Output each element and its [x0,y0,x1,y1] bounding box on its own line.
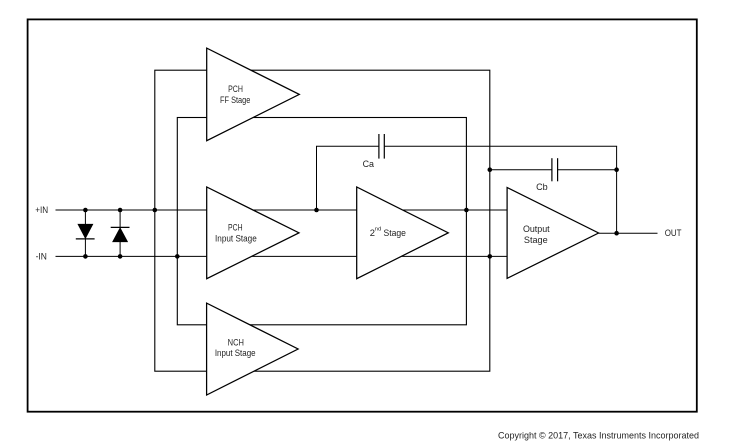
svg-text:NCH: NCH [228,338,244,348]
node: +IN rail x inner loop right edge [464,208,469,213]
op-amp U5: Output Stage [507,188,598,279]
node: +IN rail x outer loop left edge [153,208,158,213]
svg-text:Input Stage: Input Stage [215,348,256,358]
capacitor Cb [536,158,558,192]
op-amp U4: 2nd Stage [357,187,449,279]
wire: inner feedback loop box [177,118,466,325]
wire: right vertical from Ca down through Cb to OUT node [616,146,618,233]
node: Cb right x feedback vertical [614,167,619,172]
node: Ca tap on +IN rail [314,208,319,213]
wire: -IN rail [56,255,508,257]
capacitor Ca [363,134,385,169]
wire: Ca left vertical drop to +IN rail [316,146,318,210]
svg-text:PCH: PCH [228,84,243,94]
diode D1 (ESD, cathode down) [76,210,95,256]
svg-text:FF Stage: FF Stage [220,95,250,105]
svg-text:Stage: Stage [384,227,406,238]
wire: outer feedback loop box [155,70,490,371]
svg-text:-IN: -IN [36,251,47,261]
node: D2 anode on -IN rail [118,254,123,259]
svg-text:OUT: OUT [665,228,682,238]
wire: Cb horizontal (right segment) [558,169,617,171]
node: D2 cathode on +IN rail [118,208,123,213]
diode D2 (ESD, cathode up) [111,210,130,256]
node: OUT junction [614,231,619,236]
node: Cb left on outer loop right edge [488,167,493,172]
node: -IN rail x inner loop left edge [175,254,180,259]
wire: +IN rail [56,209,508,211]
op-amp U1: PCH FF Stage [207,48,300,141]
wire: OUT line from Output Stage tip [599,232,658,234]
svg-text:Copyright © 2017, Texas Instru: Copyright © 2017, Texas Instruments Inco… [498,430,699,441]
wire: Ca horizontal (right segment to right vertical) [384,145,617,147]
node: D1 anode on +IN rail [83,208,88,213]
op-amp U2: PCH Input Stage [207,187,299,279]
svg-text:Ca: Ca [363,159,374,169]
svg-text:+IN: +IN [35,205,48,215]
wire: Ca horizontal (left segment) [316,145,379,147]
svg-text:PCH: PCH [228,223,243,233]
svg-text:Output: Output [523,223,550,234]
svg-text:Stage: Stage [524,234,548,245]
svg-text:Cb: Cb [536,182,548,192]
node: -IN rail x outer loop right edge [488,254,493,259]
node: D1 cathode on -IN rail [83,254,88,259]
wire: Cb horizontal (left segment) [490,169,552,171]
svg-text:Input Stage: Input Stage [215,233,257,243]
op-amp U3: NCH Input Stage [207,303,299,395]
svg-text:nd: nd [375,227,381,233]
